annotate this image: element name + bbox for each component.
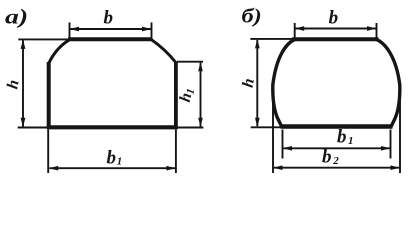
svg-text:1: 1 xyxy=(348,135,354,147)
svg-text:b: b xyxy=(322,147,332,168)
svg-text:b: b xyxy=(107,148,117,169)
svg-text:б): б) xyxy=(242,5,262,27)
svg-text:2: 2 xyxy=(332,155,339,167)
svg-text:1: 1 xyxy=(117,156,123,168)
svg-text:b: b xyxy=(329,8,339,29)
svg-text:а): а) xyxy=(5,6,28,29)
svg-text:b: b xyxy=(104,8,114,29)
svg-text:b: b xyxy=(337,127,347,148)
